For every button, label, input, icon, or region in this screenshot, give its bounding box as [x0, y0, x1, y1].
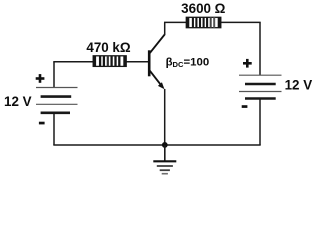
transistor Q1 emitter diagonal with arrow: [150, 71, 165, 90]
wire: top horizontal (collector to RC): [164, 21, 187, 23]
resistor RC body (3600 Ohm): [186, 17, 221, 28]
transistor Q1 base bar: [148, 50, 151, 76]
wire: bottom horizontal rail: [53, 144, 260, 146]
wire: VCC negative lead vertical: [259, 99, 261, 145]
wire: collector vertical: [164, 22, 166, 35]
battery VBB plates: [36, 88, 78, 113]
svg-text:βDC=100: βDC=100: [166, 57, 210, 70]
svg-text:470 kΩ: 470 kΩ: [86, 40, 131, 55]
wire: VBB positive lead vertical: [53, 62, 55, 88]
wire: top horizontal (RC to VCC): [221, 21, 261, 23]
wire: VCC positive lead vertical: [259, 22, 261, 75]
transistor Q1 collector diagonal: [150, 34, 165, 53]
wire: base wire (RB to transistor base): [126, 61, 148, 63]
label - (VCC): [242, 105, 248, 108]
wire: emitter vertical: [164, 89, 166, 145]
label - (VBB): [39, 122, 45, 125]
label + (VCC): [243, 59, 252, 68]
svg-text:12 V: 12 V: [285, 77, 313, 92]
wire: base loop horizontal (battery to RB): [53, 61, 94, 63]
resistor RB body (470 kOhm): [93, 56, 126, 67]
wire: VBB negative lead vertical: [53, 113, 55, 145]
junction node (emitter / ground / rail): [162, 142, 168, 148]
label + (VBB): [36, 74, 45, 83]
svg-text:12 V: 12 V: [4, 94, 32, 109]
ground lead vertical: [164, 145, 166, 161]
ground symbol: [153, 161, 176, 173]
battery VCC plates: [239, 75, 282, 98]
svg-text:3600 Ω: 3600 Ω: [181, 1, 226, 16]
